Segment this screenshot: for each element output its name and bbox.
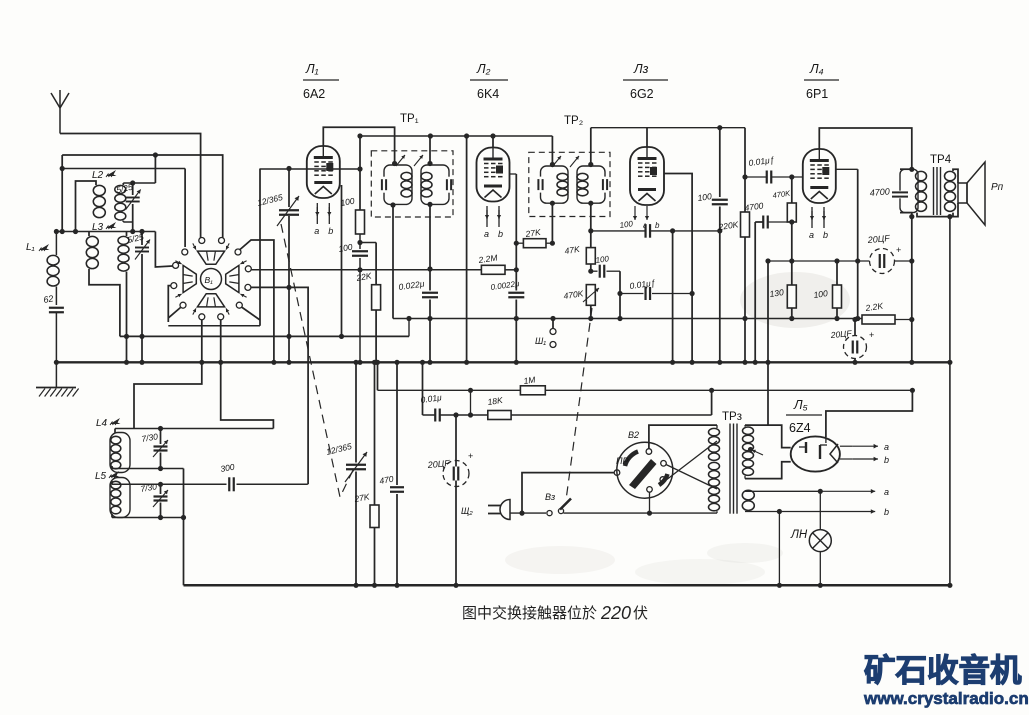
x360 column (359, 137, 361, 210)
volume pot 470K (586, 285, 595, 306)
capacitor 100 (591, 270, 598, 272)
TP4 core (933, 167, 935, 215)
svg-text:L3: L3 (92, 222, 104, 233)
wire grid line y168.5 seg2 (260, 168, 360, 170)
tube U1 6A2 (307, 146, 340, 198)
capacitor 0.022 (422, 292, 438, 294)
filament wire b (745, 511, 779, 513)
capacitor 0.0022 (508, 292, 524, 294)
L4 bottom wire (112, 468, 184, 470)
TP3 core (729, 424, 731, 514)
variable cap 12/365 (288, 169, 290, 208)
wire to V2 left (522, 473, 614, 513)
y390 wire (377, 362, 379, 390)
band switch B1 (201, 269, 222, 290)
cap 470 (396, 362, 398, 485)
filament wire a (745, 490, 820, 492)
x768 column upper (767, 261, 769, 362)
antenna (59, 108, 61, 134)
TP2 prim bottom (551, 203, 553, 243)
cap 0.01 (436, 408, 440, 423)
wire V3-selector (564, 512, 650, 514)
wire tube2 plate (510, 173, 517, 175)
wire y231.5 to B1 (155, 232, 172, 268)
paper smudges (740, 272, 850, 328)
svg-text:20ЦF: 20ЦF (866, 233, 890, 245)
svg-text:伏: 伏 (633, 605, 648, 622)
TP4 secondary (945, 171, 956, 180)
trimmer 5/25 L3 (141, 232, 143, 246)
tube1 filament (316, 203, 318, 224)
TP2 secondary (577, 166, 605, 203)
y127.7 wire (591, 127, 745, 129)
wire tube4 grid (836, 168, 858, 170)
svg-text:L2: L2 (92, 170, 104, 181)
6Z4 wiring (767, 362, 769, 425)
svg-text:图中交换接触器位於: 图中交换接触器位於 (462, 604, 597, 622)
L5 bottom wire (112, 517, 184, 519)
svg-text:ПР: ПР (616, 456, 629, 466)
svg-text:Ш₁: Ш₁ (535, 336, 546, 346)
capacitor 62 (49, 307, 64, 309)
TP2 primary (541, 166, 569, 203)
resistor 2.2K (862, 315, 895, 324)
svg-text:Вз: Вз (545, 492, 555, 502)
resistor 100 (356, 210, 365, 234)
y415 wire (422, 362, 424, 415)
x857.7 column (857, 169, 859, 318)
TP1 conn (392, 161, 397, 166)
wire B1 ur to x273.9 (240, 240, 274, 362)
svg-text:L₁: L₁ (26, 242, 35, 253)
dash 470K-V3 (566, 308, 592, 500)
svg-text:100: 100 (813, 288, 829, 300)
svg-text:Лз: Лз (633, 62, 649, 76)
B1 contacts (199, 238, 205, 244)
resistor 130 (787, 285, 796, 308)
electrolytic 20uF psu2 (844, 336, 867, 359)
wire B1 br diag (242, 307, 261, 320)
svg-text:Л₂: Л₂ (476, 62, 491, 76)
variable cap 12/365 g2 (355, 362, 357, 462)
svg-text:a: a (809, 230, 814, 240)
y269.8 wire (360, 269, 481, 271)
grid cap 0.01 (644, 287, 646, 300)
TP3 primary (716, 425, 718, 428)
svg-text:b: b (655, 221, 660, 230)
wire tube1 top (323, 127, 394, 163)
svg-text:b: b (498, 229, 503, 239)
svg-text:1М: 1М (523, 374, 537, 386)
resistor 27K osc (374, 362, 376, 505)
selector bottom wire (649, 492, 651, 513)
jog to L1 column (56, 231, 62, 233)
resistor 1M (520, 386, 545, 395)
cross wires (666, 465, 717, 490)
svg-text:L5: L5 (95, 471, 107, 482)
svg-text:ЛH: ЛH (790, 529, 808, 541)
wire tube3 top (646, 128, 648, 147)
svg-text:a: a (884, 442, 889, 452)
x260 column (259, 169, 261, 326)
y136 wire (360, 135, 552, 137)
main bus y362.3 (56, 361, 950, 363)
wire L2 top to bus (123, 182, 132, 184)
svg-text:В₁: В₁ (205, 275, 214, 285)
svg-text:Pп: Pп (991, 182, 1004, 193)
gang dash (281, 224, 356, 497)
TP1 sec bottom drop (429, 204, 431, 290)
svg-text:20ЦF: 20ЦF (829, 328, 852, 340)
speaker Pn (958, 183, 967, 203)
tube4 filament (811, 207, 813, 228)
svg-text:Л₄: Л₄ (809, 62, 824, 76)
resistor 22K (360, 242, 376, 244)
svg-text:Л₁: Л₁ (305, 62, 319, 76)
220K column (744, 128, 746, 212)
wire L3 bottom (126, 272, 128, 363)
resistor 100 (836, 261, 838, 285)
path bus to L4 (134, 362, 202, 428)
wire antenna lead y133.5 (60, 134, 201, 239)
svg-text:6Z4: 6Z4 (789, 421, 811, 435)
svg-text:b: b (884, 507, 889, 517)
svg-text:TРз: TРз (722, 411, 742, 423)
svg-text:62: 62 (43, 293, 55, 305)
tube3 filament (634, 206, 636, 220)
6Z4 outputs a b (840, 445, 853, 447)
svg-text:130: 130 (769, 287, 785, 299)
tube U3 6G2 (630, 147, 664, 205)
B1 bottom drops (201, 320, 203, 363)
svg-text:L4: L4 (96, 418, 108, 429)
y484.3 wire cap 300 (112, 483, 227, 485)
svg-text:6P1: 6P1 (806, 87, 828, 101)
svg-text:b: b (823, 230, 828, 240)
TP3 HV secondary (744, 425, 746, 427)
TP1 primary (384, 165, 412, 204)
link x470.5 (470, 390, 472, 415)
wire B1 r2 + drop x308.1 (251, 287, 308, 484)
y231 wire (591, 230, 720, 232)
svg-text:+: + (869, 330, 874, 340)
coil L2 sec (122, 183, 124, 185)
wire grid line y168.5 seg1 (62, 168, 185, 170)
cap 4700 (762, 216, 764, 229)
svg-text:В2: В2 (628, 430, 639, 440)
svg-text:TР₂: TР₂ (564, 115, 583, 127)
electrolytic 20uF psu (443, 461, 469, 487)
link wire y231.5 (56, 231, 155, 233)
x912.4 to 6Z4 top (910, 388, 915, 393)
wire tube3 plate (664, 174, 692, 363)
svg-text:www.crystalradio.cn: www.crystalradio.cn (863, 689, 1029, 708)
svg-text:b: b (884, 455, 889, 465)
left rail x62.2 (61, 155, 63, 232)
TP1 arrows (396, 155, 405, 166)
svg-text:a: a (484, 229, 489, 239)
svg-text:Л₅: Л₅ (793, 398, 808, 412)
avc drop x466.6 (466, 136, 468, 362)
svg-text:6A2: 6A2 (303, 87, 325, 101)
y325.8 link (168, 325, 260, 327)
TP2 sec riser (590, 128, 592, 165)
selector lever (629, 459, 657, 489)
coupling cap 0.01uf (766, 171, 768, 184)
svg-text:4700: 4700 (869, 186, 890, 198)
svg-text:+: + (468, 451, 473, 461)
svg-text:6K4: 6K4 (477, 87, 499, 101)
x911.8 column (911, 217, 913, 363)
svg-text:矿石收音机: 矿石收音机 (864, 652, 1022, 688)
TP1 secondary (421, 165, 449, 204)
lower bus y336.4 (120, 335, 409, 337)
y261 wire (768, 260, 870, 262)
capacitor 100 (352, 250, 368, 252)
coil L1 (55, 232, 57, 256)
svg-text:20ЦF: 20ЦF (426, 458, 450, 470)
svg-text:100: 100 (619, 219, 634, 230)
svg-text:a: a (314, 226, 319, 236)
electrolytic 20uF (870, 249, 895, 274)
svg-text:Щ₂: Щ₂ (461, 506, 473, 516)
svg-text:TР4: TР4 (930, 154, 952, 166)
wire B1 ul (184, 169, 186, 248)
svg-text:b: b (328, 226, 333, 236)
svg-text:TР₁: TР₁ (400, 113, 419, 125)
x711.6 riser (711, 390, 713, 415)
svg-text:100: 100 (697, 191, 713, 203)
svg-text:+: + (896, 245, 901, 255)
wire B1 r1 y269.8 (251, 269, 360, 271)
svg-text:47K: 47K (564, 244, 581, 256)
trimmer 7/30 L5 (158, 482, 163, 487)
wire B1 l2 (168, 286, 171, 322)
tube2 filament (486, 206, 488, 227)
link x409 (408, 319, 410, 337)
TP4 conn (909, 167, 914, 172)
svg-text:6G2: 6G2 (630, 87, 654, 101)
tube U2 6K4 (477, 148, 510, 202)
resistor 2.2M (481, 265, 505, 274)
wire L2 bottom to y231.5 (123, 221, 132, 223)
ground (55, 362, 57, 387)
svg-text:18K: 18K (487, 395, 504, 407)
TP1 prim bottom drop (392, 205, 394, 319)
resistor 470K grid (791, 177, 793, 203)
diode column x340.8 (341, 185, 343, 336)
TP3 filament secondary (742, 490, 754, 500)
svg-text:a: a (884, 487, 889, 497)
x273.4 link from B1 (221, 362, 274, 428)
x672.6 column (672, 231, 674, 362)
TP2 sec bottom (590, 203, 592, 231)
svg-text:220: 220 (600, 603, 631, 623)
resistor 47K (590, 231, 592, 248)
trimmer 5/25 L2 (132, 183, 134, 195)
avc line y318.5 (393, 318, 862, 320)
right bus x949.9 (949, 217, 951, 586)
selector top wire (649, 425, 717, 449)
wire bus y155 (62, 155, 223, 238)
resistor 18K (488, 411, 511, 420)
trimmer 7/30 L4 (160, 429, 162, 445)
TP2 conn (550, 162, 555, 167)
x620 column (619, 271, 621, 318)
TP2 arrows (552, 156, 561, 167)
cap 100 x719.8 (719, 128, 721, 197)
x755.2 column (754, 222, 756, 362)
wire tube4 top (819, 128, 912, 169)
resistor 27K (523, 239, 546, 248)
wire B1 bl diag (168, 308, 180, 319)
wire plug-V3 (510, 512, 546, 514)
cap 100 on y231 (646, 223, 650, 240)
coil L3 sec (126, 232, 128, 237)
svg-text:100: 100 (595, 254, 610, 265)
bottom bus y585.3 (184, 584, 950, 587)
wire tube2 top (492, 136, 494, 148)
tube U4 6P1 (803, 149, 836, 203)
wire L4 top y428.5 (115, 428, 273, 430)
